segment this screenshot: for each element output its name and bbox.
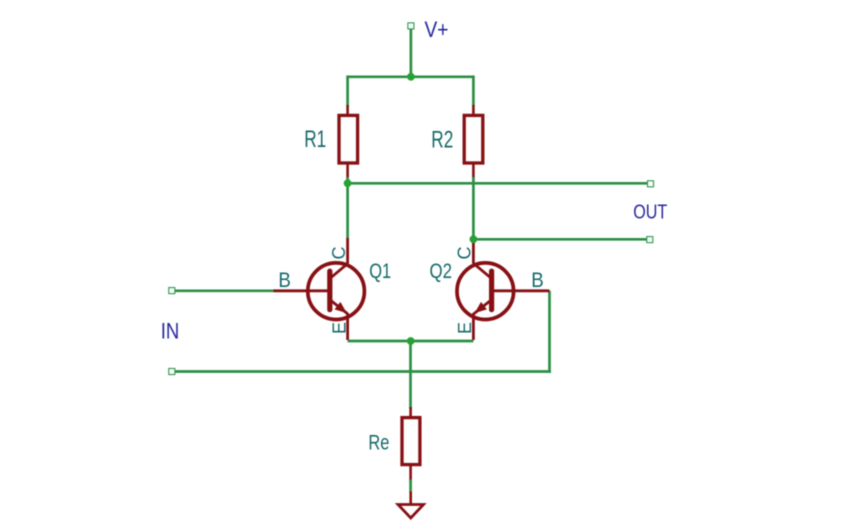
wire R1 bottom <box>346 177 349 183</box>
svg-text:E: E <box>455 322 475 334</box>
svg-text:Q2: Q2 <box>430 259 453 283</box>
wire OUT upper rail <box>348 182 648 185</box>
wire emitter rail <box>348 340 474 343</box>
terminal OUT upper <box>647 181 653 187</box>
svg-text:V+: V+ <box>425 17 449 42</box>
resistor R2 <box>464 105 483 178</box>
wire tail to Re <box>409 341 412 408</box>
resistor R1 <box>339 105 358 178</box>
wire R1 top <box>346 75 349 106</box>
wire Q1 collector <box>346 183 349 238</box>
svg-text:C: C <box>329 247 349 260</box>
resistor Re <box>402 407 420 481</box>
svg-text:C: C <box>455 247 475 260</box>
wire Q2 base vertical <box>548 291 551 373</box>
svg-text:E: E <box>329 322 349 334</box>
transistor Q1 <box>274 238 365 340</box>
svg-text:OUT: OUT <box>633 201 667 224</box>
svg-text:IN: IN <box>161 319 180 344</box>
junction node R1-collector <box>344 179 352 187</box>
ground <box>398 492 424 519</box>
wire Re to ground <box>409 480 412 493</box>
wire R2 bottom <box>472 177 475 239</box>
svg-text:Re: Re <box>368 431 389 454</box>
svg-text:Q1: Q1 <box>369 259 391 283</box>
power terminal V+ <box>408 23 414 29</box>
svg-text:R2: R2 <box>431 126 453 153</box>
terminal OUT lower <box>647 237 653 243</box>
terminal IN lower <box>169 368 175 374</box>
junction node R2-collector <box>470 235 478 243</box>
transistor Q2 <box>457 240 549 340</box>
terminal IN upper <box>169 288 175 294</box>
svg-text:B: B <box>278 269 291 292</box>
wire IN upper <box>175 289 275 292</box>
wire V+ lead <box>410 29 413 77</box>
svg-text:B: B <box>531 269 544 292</box>
wire OUT lower rail <box>473 238 646 241</box>
junction emitter node <box>407 337 415 345</box>
junction V+ rail <box>407 73 415 81</box>
wire IN lower horizontal <box>175 370 551 373</box>
wire R2 top <box>472 75 475 106</box>
wire top rail <box>348 75 474 78</box>
svg-text:R1: R1 <box>304 126 326 153</box>
